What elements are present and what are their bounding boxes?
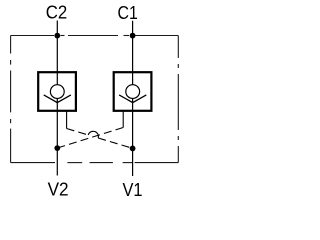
svg-text:V2: V2 <box>48 179 69 199</box>
svg-text:C2: C2 <box>46 3 67 23</box>
svg-text:V1: V1 <box>123 180 143 200</box>
svg-text:C1: C1 <box>118 3 138 23</box>
